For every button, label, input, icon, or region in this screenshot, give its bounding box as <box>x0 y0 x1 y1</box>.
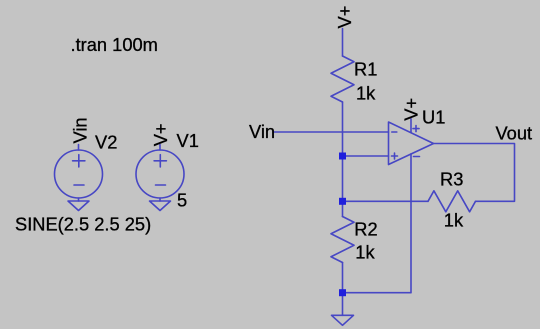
value 1k R2 <box>355 241 375 262</box>
resistor R3 <box>428 191 476 212</box>
svg-text:U1: U1 <box>422 106 445 127</box>
label U1 <box>422 106 445 127</box>
svg-text:V1: V1 <box>177 130 199 151</box>
label V1 <box>177 130 199 151</box>
label R2 <box>354 218 377 239</box>
wire <box>410 119 412 133</box>
ground <box>68 201 89 211</box>
node junction <box>339 289 346 296</box>
voltage source V1 <box>136 145 184 202</box>
svg-text:Vin: Vin <box>70 117 91 143</box>
label R1 <box>354 58 377 79</box>
wire <box>434 144 515 202</box>
node junction <box>339 153 346 160</box>
svg-text:1k: 1k <box>355 241 375 262</box>
svg-text:1k: 1k <box>444 210 464 231</box>
wire <box>343 154 412 293</box>
wire <box>342 263 344 316</box>
svg-text:1k: 1k <box>356 82 376 103</box>
op-amp U1 <box>389 122 434 165</box>
svg-text:.tran 100m: .tran 100m <box>71 34 158 55</box>
node Vin label V2 <box>70 117 91 143</box>
label V2 <box>95 132 117 153</box>
svg-text:Vout: Vout <box>496 123 533 144</box>
wire <box>342 102 344 217</box>
ground <box>150 201 171 211</box>
wire <box>274 131 389 133</box>
node V+ label opamp <box>401 98 422 121</box>
wire <box>343 155 389 157</box>
svg-text:V2: V2 <box>95 132 117 153</box>
value SINE <box>15 214 151 235</box>
value 5 <box>177 190 187 211</box>
label R3 <box>440 168 463 189</box>
ground <box>332 315 354 325</box>
node junction <box>339 198 346 205</box>
node V+ label top <box>334 6 355 29</box>
svg-text:R2: R2 <box>354 218 377 239</box>
directive .tran <box>71 34 158 55</box>
svg-text:Vin: Vin <box>249 121 275 142</box>
wire <box>342 29 344 57</box>
node Vout label <box>496 123 533 144</box>
wire <box>343 200 429 202</box>
svg-text:V+: V+ <box>334 6 355 29</box>
value 1k R3 <box>444 210 464 231</box>
svg-text:V+: V+ <box>401 98 422 121</box>
value 1k R1 <box>356 82 376 103</box>
voltage source V2 <box>55 145 103 202</box>
svg-text:R3: R3 <box>440 168 463 189</box>
svg-text:R1: R1 <box>354 58 377 79</box>
svg-text:5: 5 <box>177 190 187 211</box>
svg-text:SINE(2.5 2.5 25): SINE(2.5 2.5 25) <box>15 214 151 235</box>
resistor R2 <box>331 217 354 263</box>
node V+ label V1 <box>150 123 171 146</box>
resistor R1 <box>331 56 354 102</box>
svg-text:V+: V+ <box>150 123 171 146</box>
node Vin label <box>249 121 275 142</box>
